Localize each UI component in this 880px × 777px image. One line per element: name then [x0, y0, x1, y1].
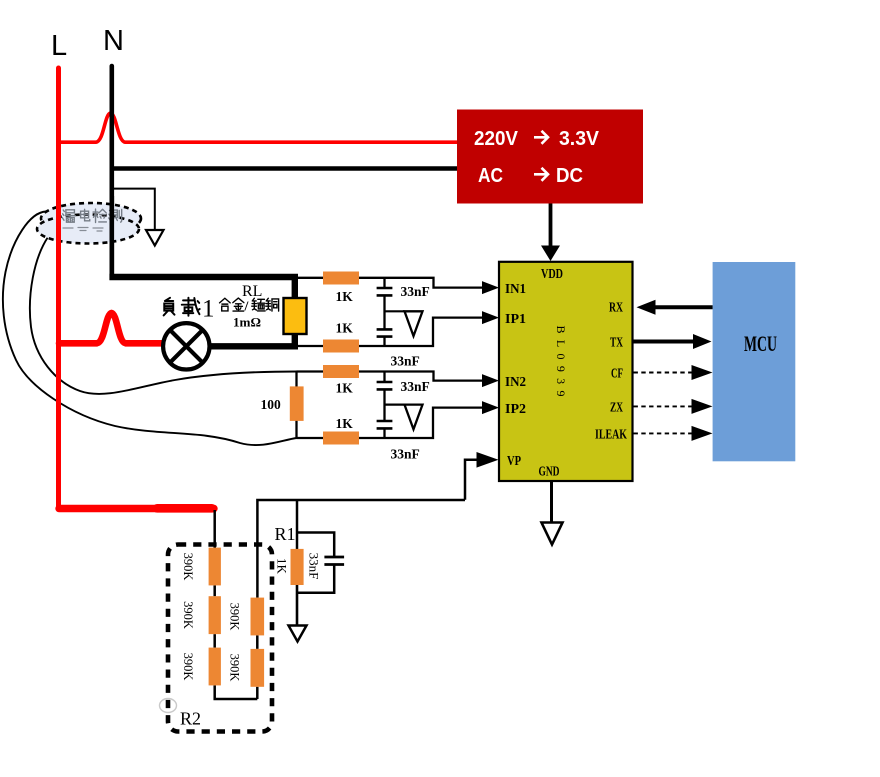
svg-text:1K: 1K: [336, 289, 354, 304]
wire: N stub to ground: [111, 189, 155, 230]
svg-text:ZX: ZX: [610, 400, 623, 415]
svg-text:1: 1: [202, 296, 215, 323]
svg-text:R2: R2: [180, 709, 201, 729]
svg-text:R1: R1: [275, 524, 296, 544]
svg-text:IP1: IP1: [505, 311, 526, 326]
wire: L red vertical: [56, 68, 61, 509]
shunt resistor RL: [284, 298, 307, 334]
svg-text:33nF: 33nF: [391, 447, 420, 462]
capacitor 33nF ch2 bottom plates: [377, 421, 393, 428]
svg-text:220V: 220V: [474, 128, 519, 150]
cap wire ch2: [383, 372, 385, 439]
svg-text:CF: CF: [611, 366, 623, 381]
VDD arrowhead: [541, 246, 560, 262]
wire R2 left column top: [213, 510, 216, 548]
wire: red mains horizontal with jump bump: [56, 113, 457, 142]
svg-text:GND: GND: [539, 464, 560, 479]
wire: N black vertical: [110, 66, 115, 277]
chip BL0939: [499, 262, 633, 481]
wire: sensor curve to IN2 node: [30, 237, 297, 394]
svg-text:VDD: VDD: [541, 266, 563, 281]
wire R1 cap loop: [297, 533, 334, 593]
svg-text:TX: TX: [610, 335, 623, 350]
wire: thick lamp to shunt bottom: [210, 331, 295, 346]
wire ch2 bottom to IP2: [297, 408, 484, 438]
wire red overlap segment: [157, 504, 212, 513]
ground branch ch2: [385, 404, 405, 406]
wire VP horizontal net: [257, 500, 465, 598]
svg-text:33nF: 33nF: [307, 553, 322, 580]
resistor 390K d: [251, 598, 265, 636]
wire red bottom horizontal: [59, 505, 214, 512]
wire R1 bottom: [296, 585, 299, 625]
wire: thick N to shunt top: [109, 277, 294, 300]
svg-text:33nF: 33nF: [391, 353, 420, 368]
resistor 1K ch2 bottom: [323, 432, 359, 445]
leakage CT ellipse upper: [41, 203, 141, 234]
svg-text:1mΩ: 1mΩ: [233, 315, 261, 330]
lamp X: [170, 330, 203, 363]
MCU box: [713, 262, 796, 461]
resistor 1K ch2 top: [323, 365, 359, 378]
wire ch1 top to IN1: [295, 278, 483, 288]
wire ZX dashed: [634, 405, 693, 407]
arrowhead IP1: [482, 311, 499, 324]
ground ch1: [405, 311, 423, 336]
text 漏电检测: [62, 209, 121, 222]
wire ch2 top to IN2: [297, 372, 484, 381]
R2 dashed box: [168, 545, 272, 732]
wire ch1 bottom to IP1: [295, 318, 483, 346]
svg-text:390K: 390K: [228, 603, 242, 631]
ground R1: [289, 626, 307, 642]
svg-text:1K: 1K: [336, 381, 354, 396]
svg-text:IN1: IN1: [505, 281, 526, 296]
R2 left column wires: [215, 585, 258, 699]
wire VP: [465, 460, 478, 500]
cap wire ch1: [383, 278, 385, 346]
arrowhead TX: [693, 334, 712, 349]
capacitor 33nF ch2 top plates: [377, 382, 393, 389]
svg-text:33nF: 33nF: [401, 284, 430, 299]
wire CF dashed: [634, 372, 693, 374]
svg-text:100: 100: [261, 397, 282, 412]
wire RX: [654, 305, 713, 309]
resistor 100: [290, 386, 304, 421]
arrowhead IN1: [482, 281, 499, 294]
ground chip: [542, 523, 563, 545]
text 合金/锰铜: [220, 298, 279, 311]
svg-text:1K: 1K: [336, 416, 354, 431]
resistor 390K b: [209, 596, 221, 634]
svg-text:390K: 390K: [181, 553, 195, 581]
wire: L red vertical over ellipse: [56, 198, 61, 252]
svg-text:390K: 390K: [228, 654, 242, 682]
ground branch ch1: [385, 310, 405, 312]
wire TX: [633, 340, 696, 344]
svg-text:L: L: [51, 30, 67, 62]
wire: red load line with bump: [59, 313, 163, 343]
arrowhead VP: [477, 452, 499, 468]
arrowhead ILEAK: [692, 426, 713, 441]
resistor 390K e: [251, 649, 265, 687]
text 负载1: [164, 298, 200, 316]
arrowhead RX: [637, 300, 656, 315]
svg-text:ILEAK: ILEAK: [595, 427, 627, 442]
wire: N vertical over ellipse: [110, 196, 115, 277]
lamp load circle: [163, 323, 209, 369]
svg-text:33nF: 33nF: [401, 379, 430, 394]
100 ohm stubs: [295, 372, 297, 439]
resistor 390K c: [209, 648, 221, 686]
capacitor 33nF R1 plates: [324, 557, 344, 565]
svg-text:3.3V: 3.3V: [559, 128, 600, 150]
faint circle mark: [160, 699, 177, 713]
power supply red box: [457, 110, 643, 204]
svg-text:AC: AC: [478, 165, 503, 187]
ground ch2: [405, 405, 423, 430]
svg-text:IP2: IP2: [505, 401, 526, 416]
capacitor 33nF ch1 top plates: [377, 288, 393, 295]
svg-text:RL: RL: [242, 283, 262, 300]
wire: sensor curve to IP2 node: [3, 212, 297, 446]
arrow glyph 2: [534, 168, 548, 181]
clipped second text row marks: [63, 228, 103, 232]
svg-text:RX: RX: [609, 300, 623, 315]
svg-text:1K: 1K: [275, 558, 290, 575]
capacitor 33nF ch1 bottom plates: [377, 329, 393, 336]
resistor 1K ch1 bottom: [323, 340, 359, 353]
arrowhead ZX: [692, 399, 713, 414]
svg-text:IN2: IN2: [505, 374, 526, 389]
svg-text:VP: VP: [507, 453, 521, 468]
wire VDD arrow line: [549, 204, 553, 248]
svg-text:390K: 390K: [181, 601, 195, 629]
svg-text:390K: 390K: [181, 653, 195, 681]
leakage CT ellipse lower: [37, 215, 139, 244]
arrowhead CF: [692, 365, 713, 380]
svg-text:MCU: MCU: [744, 331, 777, 356]
svg-text:DC: DC: [556, 165, 583, 187]
wire: black mains horizontal: [110, 166, 458, 171]
arrow glyph 1: [534, 131, 548, 144]
ground for N stub: [146, 230, 164, 246]
resistor 390K a: [209, 548, 221, 586]
svg-text:N: N: [103, 25, 124, 57]
arrowhead IP2: [482, 401, 499, 414]
arrowhead IN2: [482, 374, 499, 387]
svg-text:1K: 1K: [336, 321, 354, 336]
wire ILEAK dashed: [634, 432, 693, 434]
wire R1 top: [296, 500, 299, 549]
chip GND wire: [550, 481, 553, 522]
resistor 1K ch1 top: [323, 272, 359, 285]
resistor R1 1K: [291, 549, 304, 585]
